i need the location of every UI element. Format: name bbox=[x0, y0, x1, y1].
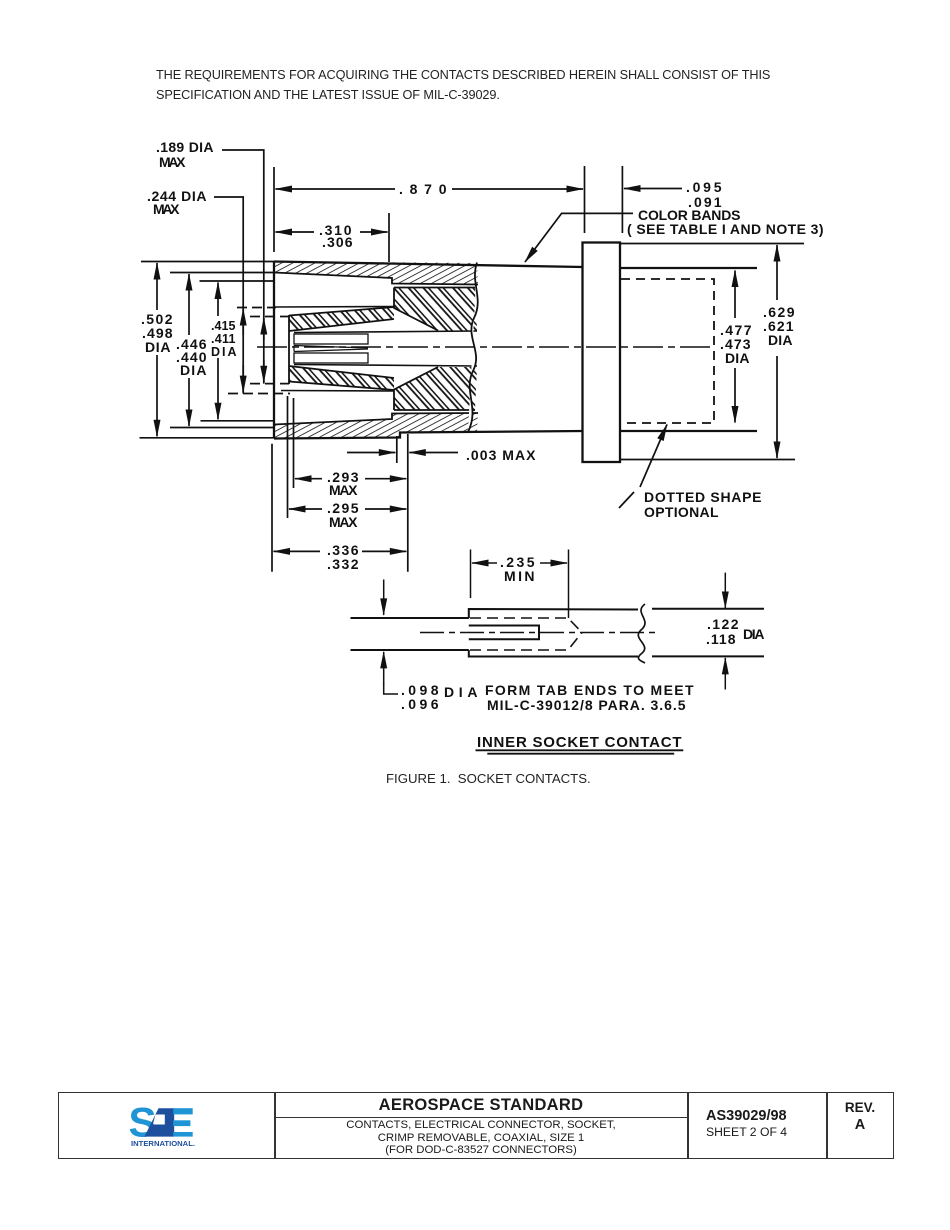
svg-text:.306: .306 bbox=[322, 234, 354, 250]
dim .095 leader bbox=[624, 188, 682, 190]
inner slot wedge bbox=[294, 346, 368, 352]
svg-text:MAX: MAX bbox=[159, 154, 187, 170]
svg-text:DIA: DIA bbox=[180, 362, 208, 378]
dashed ext .189 top bbox=[250, 316, 289, 318]
ext .235 right bbox=[568, 550, 570, 619]
svg-text:DIA: DIA bbox=[444, 684, 479, 700]
tab hidden dashed bottom bbox=[470, 633, 582, 651]
svg-text:OPTIONAL: OPTIONAL bbox=[644, 504, 720, 520]
upper inner mass (sleeve) hatched bbox=[394, 288, 477, 331]
vertical dividers bbox=[274, 1093, 276, 1158]
tab section outline bbox=[469, 609, 638, 618]
dim .310 bbox=[276, 231, 315, 233]
lower inner mass (sleeve) hatched bbox=[394, 367, 477, 410]
svg-text:.415: .415 bbox=[211, 319, 237, 333]
sleeve top edge line bbox=[275, 306, 394, 309]
ext .502 bottom bbox=[140, 437, 275, 439]
upper mass edges bbox=[394, 288, 475, 331]
ext .336 left below part bbox=[271, 444, 273, 572]
center cell bbox=[276, 1093, 687, 1158]
right stub top bbox=[652, 608, 764, 610]
dim .446 bbox=[188, 274, 190, 335]
svg-text:.118: .118 bbox=[706, 631, 737, 647]
inner slot upper strip bbox=[294, 334, 368, 344]
cylinder right of flange top bbox=[620, 267, 757, 269]
tab hidden dashed top bbox=[470, 618, 582, 633]
ext .446 top bbox=[170, 272, 274, 274]
number cell bbox=[688, 1093, 826, 1158]
dim .295 bbox=[289, 508, 322, 510]
dim .870 bbox=[276, 188, 396, 190]
svg-text:MIL-C-39012/8 PARA. 3.6.5: MIL-C-39012/8 PARA. 3.6.5 bbox=[487, 697, 687, 713]
svg-text:.870: .870 bbox=[399, 181, 448, 197]
front face bbox=[273, 262, 275, 439]
lower tine edges bbox=[289, 366, 394, 390]
bore bottom line bbox=[294, 365, 477, 367]
ext line color band right bbox=[621, 166, 623, 233]
leader .189 bbox=[222, 150, 264, 384]
wavy break inner bbox=[638, 604, 645, 663]
bottom lip inner bbox=[274, 413, 478, 425]
dim .415 bbox=[217, 283, 219, 317]
svg-text:.122: .122 bbox=[707, 616, 740, 632]
ext .003 left bbox=[396, 436, 398, 463]
tongue rectangle bbox=[469, 626, 539, 640]
top lip inner bbox=[274, 273, 478, 285]
dotted optional shape bbox=[621, 279, 714, 423]
dim .003 bbox=[347, 452, 395, 454]
underline inner socket contact bbox=[476, 749, 684, 751]
svg-text:MAX: MAX bbox=[153, 201, 181, 217]
dim .293 bbox=[295, 478, 322, 480]
ext .415 bottom bbox=[201, 420, 275, 422]
svg-text:.003 MAX: .003 MAX bbox=[466, 447, 537, 463]
dim .629 ext bottom bbox=[620, 459, 795, 461]
outer shell top hatched band bbox=[274, 262, 478, 285]
svg-text:DIA: DIA bbox=[211, 345, 238, 359]
ext line above part (step x389) bbox=[388, 213, 390, 262]
svg-text:INTERNATIONAL.: INTERNATIONAL. bbox=[131, 1139, 195, 1148]
svg-text:MAX: MAX bbox=[329, 514, 359, 530]
dashed ext .244 top bbox=[237, 307, 276, 309]
flange bbox=[583, 243, 621, 463]
wavy break line bbox=[468, 263, 478, 433]
dim .235 bbox=[472, 562, 497, 564]
outer shell bottom hatched band bbox=[274, 413, 478, 439]
svg-text:FORM TAB ENDS TO MEET: FORM TAB ENDS TO MEET bbox=[485, 682, 695, 698]
dim .629 ext top bbox=[620, 243, 804, 245]
dim .098 arrows bbox=[383, 580, 385, 615]
right stub bottom bbox=[652, 655, 764, 657]
lower tine hatched bbox=[289, 366, 394, 390]
ext .446 bottom bbox=[170, 427, 274, 429]
dim .629 bbox=[776, 245, 778, 300]
ext .295 left below part bbox=[287, 396, 289, 518]
leader dotted shape bbox=[640, 425, 667, 488]
inner slot lower strip bbox=[294, 353, 368, 363]
figure caption bbox=[386, 771, 591, 786]
svg-text:.189 DIA: .189 DIA bbox=[156, 139, 215, 155]
ext .293 left below part bbox=[293, 398, 295, 488]
centerline inner bbox=[420, 632, 660, 634]
centerline main bbox=[257, 346, 712, 348]
dashed ext .189 bottom bbox=[250, 383, 289, 385]
ext .502 top bbox=[141, 261, 274, 263]
top outer line bbox=[274, 262, 583, 268]
svg-text:MAX: MAX bbox=[329, 482, 359, 498]
leader .244 bbox=[214, 197, 243, 394]
header paragraph bbox=[156, 66, 836, 105]
ext right shared bbox=[407, 434, 409, 572]
dim .477 bbox=[734, 271, 736, 319]
svg-text:( SEE TABLE I AND NOTE 3): ( SEE TABLE I AND NOTE 3) bbox=[627, 221, 825, 237]
title block bbox=[58, 1092, 894, 1159]
svg-text:DOTTED SHAPE: DOTTED SHAPE bbox=[644, 489, 763, 505]
svg-text:.095: .095 bbox=[686, 179, 723, 195]
svg-text:.096: .096 bbox=[401, 696, 440, 712]
ext .235 left bbox=[470, 550, 472, 599]
svg-text:DIA: DIA bbox=[768, 332, 794, 348]
svg-text:INNER SOCKET CONTACT: INNER SOCKET CONTACT bbox=[477, 734, 683, 751]
leader color bands bbox=[525, 213, 633, 262]
sleeve bottom edge line bbox=[281, 390, 394, 393]
inner contact barrel bottom bbox=[351, 649, 469, 651]
svg-text:DIA: DIA bbox=[145, 339, 172, 355]
dim .502 bbox=[156, 263, 158, 310]
svg-text:DIA: DIA bbox=[743, 626, 766, 642]
upper tine hatched bbox=[289, 307, 394, 331]
ext .415 top bbox=[200, 280, 275, 282]
svg-text:DIA: DIA bbox=[725, 350, 751, 366]
svg-text:.332: .332 bbox=[327, 556, 360, 572]
bore top line bbox=[294, 331, 477, 333]
upper tine edges bbox=[289, 307, 394, 331]
rev cell bbox=[827, 1093, 893, 1158]
dashed ext .244 bottom bbox=[228, 393, 290, 395]
svg-text:MIN: MIN bbox=[504, 568, 536, 584]
cylinder right of flange bottom bbox=[620, 430, 757, 432]
inner contact barrel top bbox=[351, 617, 469, 619]
leader .098 corner bbox=[384, 683, 398, 694]
dim .122 arrows bbox=[724, 573, 726, 608]
bottom outer line with step bbox=[274, 431, 583, 439]
lower mass edges bbox=[394, 367, 475, 410]
sleeve front face bbox=[288, 315, 290, 384]
ext line color band left bbox=[584, 166, 586, 233]
svg-text:.411: .411 bbox=[211, 332, 237, 346]
dim .336 bbox=[274, 550, 321, 552]
ext line above part left (front face) bbox=[273, 167, 275, 252]
SAE logo bbox=[128, 1105, 198, 1149]
